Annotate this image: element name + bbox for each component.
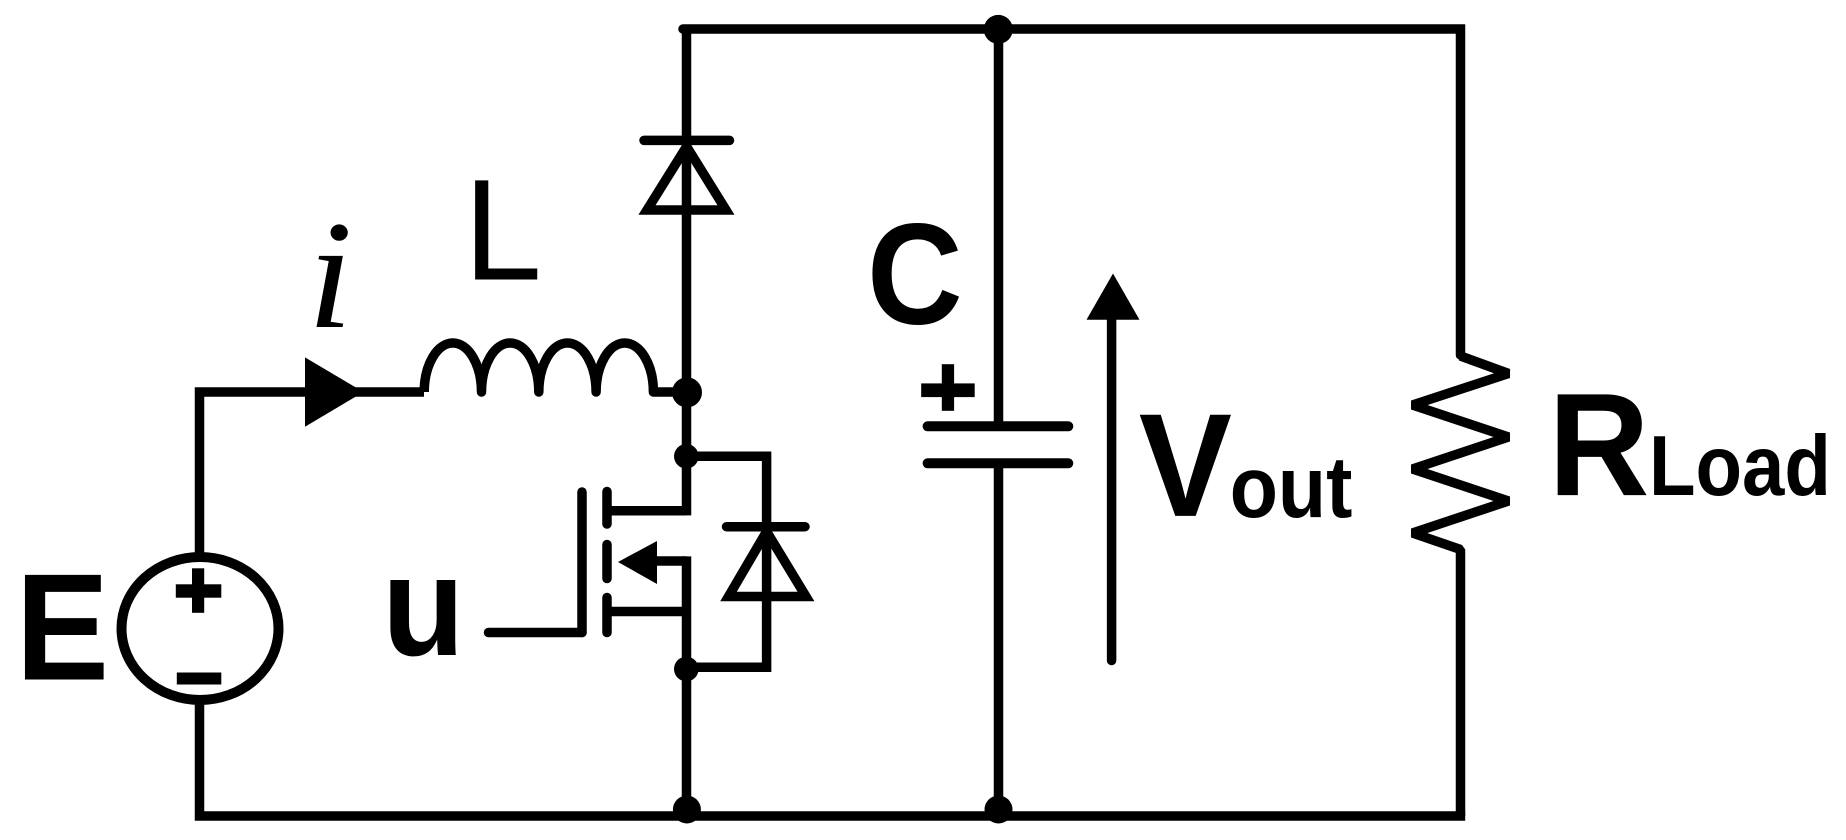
svg-text:L: L [464,150,542,311]
svg-text:u: u [382,527,465,686]
svg-text:E: E [16,542,109,711]
svg-text:Load: Load [1649,419,1831,514]
svg-text:R: R [1548,363,1649,526]
svg-text:out: out [1230,438,1353,535]
svg-text:C: C [867,195,963,355]
svg-text:i: i [308,189,353,361]
svg-text:V: V [1139,384,1232,548]
